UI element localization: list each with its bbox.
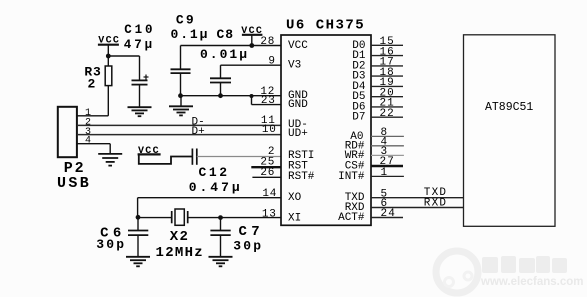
svg-text:24: 24 bbox=[381, 208, 397, 220]
wire C12 to U6 pin 2 (RSTI) bbox=[197, 156, 281, 158]
svg-text:47μ: 47μ bbox=[124, 38, 155, 52]
pin 1 INT# stub bbox=[338, 167, 404, 183]
pin 24 ACT# stub bbox=[338, 208, 403, 224]
pin 6 RXD bbox=[345, 198, 387, 214]
stub U6 pin 25 (RST) bbox=[251, 166, 281, 168]
ground under C7 bbox=[209, 257, 233, 267]
svg-text:V3: V3 bbox=[288, 60, 301, 72]
wire TXD (U6 pin5 to AT89C51) bbox=[371, 197, 464, 199]
svg-text:14: 14 bbox=[262, 188, 277, 200]
svg-text:4: 4 bbox=[85, 136, 91, 147]
svg-text:XO: XO bbox=[288, 192, 302, 204]
pin 18 D3 stub bbox=[352, 67, 403, 83]
svg-text:12MHz: 12MHz bbox=[156, 245, 205, 261]
svg-text:GND: GND bbox=[288, 99, 308, 111]
node VCC/pin28 junction dot bbox=[249, 43, 254, 48]
wire D- (P2 pin2 to U6 UD-) bbox=[77, 124, 281, 126]
node crystal left junction dot bbox=[136, 215, 141, 220]
capacitor C7 bbox=[210, 218, 230, 257]
svg-text:AT89C51: AT89C51 bbox=[485, 101, 533, 114]
svg-text:C10: C10 bbox=[124, 23, 155, 37]
svg-text:0.01μ: 0.01μ bbox=[200, 47, 249, 62]
pin 21 D6 stub bbox=[352, 98, 403, 114]
capacitor C6 bbox=[128, 218, 148, 257]
svg-text:C8: C8 bbox=[217, 27, 235, 42]
ground at P2 pin 4 bbox=[98, 154, 122, 166]
capacitor C8 bbox=[210, 78, 231, 95]
svg-text:13: 13 bbox=[262, 209, 277, 221]
svg-text:10: 10 bbox=[262, 124, 277, 136]
pin 5 TXD bbox=[345, 188, 387, 204]
node C8 bottom junction dot bbox=[218, 93, 223, 98]
svg-text:U6 CH375: U6 CH375 bbox=[286, 18, 365, 34]
pin 25 RST bbox=[260, 157, 308, 173]
wire VCC step to C12 bbox=[139, 154, 192, 164]
node crystal right junction dot bbox=[218, 215, 223, 220]
ground under C6 bbox=[126, 257, 150, 267]
svg-text:0.47μ: 0.47μ bbox=[189, 180, 243, 195]
resistor R3 bbox=[105, 56, 112, 116]
pin 11 UD- bbox=[261, 115, 308, 131]
svg-text:2: 2 bbox=[88, 77, 96, 92]
pin 14 XO bbox=[262, 188, 301, 204]
pin 1 wire (P2 to VCC/R3) bbox=[77, 115, 108, 117]
svg-text:www.elecfans.com: www.elecfans.com bbox=[480, 276, 583, 288]
pin 23 GND bbox=[261, 95, 308, 111]
svg-text:9: 9 bbox=[268, 56, 275, 68]
svg-text:28: 28 bbox=[260, 36, 275, 48]
connector P2 body bbox=[58, 107, 77, 157]
ground under C10 bbox=[128, 107, 152, 116]
svg-text:0.1μ: 0.1μ bbox=[171, 27, 210, 42]
wire VCC net to U6 pin 28 bbox=[181, 45, 282, 47]
svg-text:C12: C12 bbox=[199, 165, 230, 180]
VCC symbol (top left, net to R3/C10) bbox=[98, 36, 120, 56]
svg-text:D+: D+ bbox=[192, 126, 205, 138]
pin 22 D7 stub bbox=[352, 108, 403, 124]
capacitor C10 bbox=[132, 56, 149, 107]
node VCC junction dot bbox=[106, 54, 111, 59]
pin 16 D1 stub bbox=[352, 46, 403, 62]
pin 3 WR# stub bbox=[345, 146, 404, 162]
svg-text:D7: D7 bbox=[352, 112, 365, 124]
wire GND net (C9/C8 to U6 pin 12) bbox=[181, 95, 282, 97]
pin 4 wire to ground bbox=[77, 144, 110, 154]
svg-text:30p: 30p bbox=[96, 237, 126, 252]
op IC U6 CH375 box bbox=[281, 35, 371, 225]
pin 17 D2 stub bbox=[352, 57, 403, 73]
wire VCC node to C10 bbox=[108, 55, 139, 57]
svg-text:C9: C9 bbox=[176, 12, 196, 27]
svg-text:26: 26 bbox=[260, 167, 275, 179]
node pin23 junction dot bbox=[250, 94, 254, 98]
capacitor C9 bbox=[171, 46, 191, 96]
pin 20 D5 stub bbox=[352, 87, 403, 103]
VCC symbol (above pin 28) bbox=[241, 26, 263, 45]
svg-text:VCC: VCC bbox=[288, 40, 308, 52]
pin 27 CS# stub bbox=[345, 156, 403, 173]
svg-text:RXD: RXD bbox=[424, 198, 447, 210]
svg-text:INT#: INT# bbox=[338, 171, 365, 183]
pin 12 GND bbox=[260, 86, 308, 102]
svg-text:X2: X2 bbox=[170, 229, 190, 245]
svg-text:22: 22 bbox=[380, 108, 395, 120]
svg-text:XI: XI bbox=[288, 213, 301, 225]
svg-text:ACT#: ACT# bbox=[338, 212, 365, 224]
watermark logo circle bbox=[436, 251, 478, 293]
wire U6 pin 9 (V3) to C8 bbox=[221, 65, 282, 78]
wire crystal left bbox=[138, 217, 172, 219]
pin 4 RD# stub bbox=[345, 137, 404, 153]
pin 9 V3 bbox=[268, 56, 301, 72]
pin 8 A0 stub bbox=[350, 127, 404, 143]
pin 26 RST# bbox=[260, 167, 314, 183]
capacitor C12 bbox=[192, 149, 196, 165]
svg-text:UD+: UD+ bbox=[288, 128, 308, 140]
wire U6 pin 23 to GND net bbox=[252, 96, 282, 105]
svg-text:27: 27 bbox=[380, 156, 396, 168]
svg-text:23: 23 bbox=[261, 95, 276, 107]
pin 28 VCC bbox=[260, 36, 308, 52]
wire crystal right / U6 pin 13 (XI) bbox=[188, 217, 281, 219]
svg-text:30p: 30p bbox=[233, 239, 263, 254]
wire D+ (P2 pin3 to U6 UD+) bbox=[77, 134, 281, 136]
IC AT89C51 box bbox=[464, 35, 556, 227]
pin 15 D0 stub bbox=[352, 36, 403, 52]
svg-text:1: 1 bbox=[381, 167, 388, 179]
VCC symbol (to C12) bbox=[138, 146, 161, 157]
pin 19 D4 stub bbox=[352, 77, 403, 93]
node C9 bottom junction dot bbox=[178, 93, 183, 98]
wire RXD (U6 pin6 to AT89C51) bbox=[371, 207, 464, 209]
watermark chinese text bbox=[482, 256, 567, 273]
wire U6 pin 14 (XO) to crystal bbox=[138, 198, 281, 218]
pin 10 UD+ bbox=[262, 124, 308, 140]
ground under C9 bbox=[169, 96, 193, 116]
svg-text:USB: USB bbox=[57, 175, 91, 192]
crystal X2 bbox=[172, 209, 188, 225]
svg-text:RST#: RST# bbox=[288, 171, 315, 183]
pin 13 XI bbox=[262, 209, 301, 225]
pin 2 RSTI bbox=[268, 146, 315, 162]
stub U6 pin 26 (RST#) bbox=[252, 176, 281, 178]
